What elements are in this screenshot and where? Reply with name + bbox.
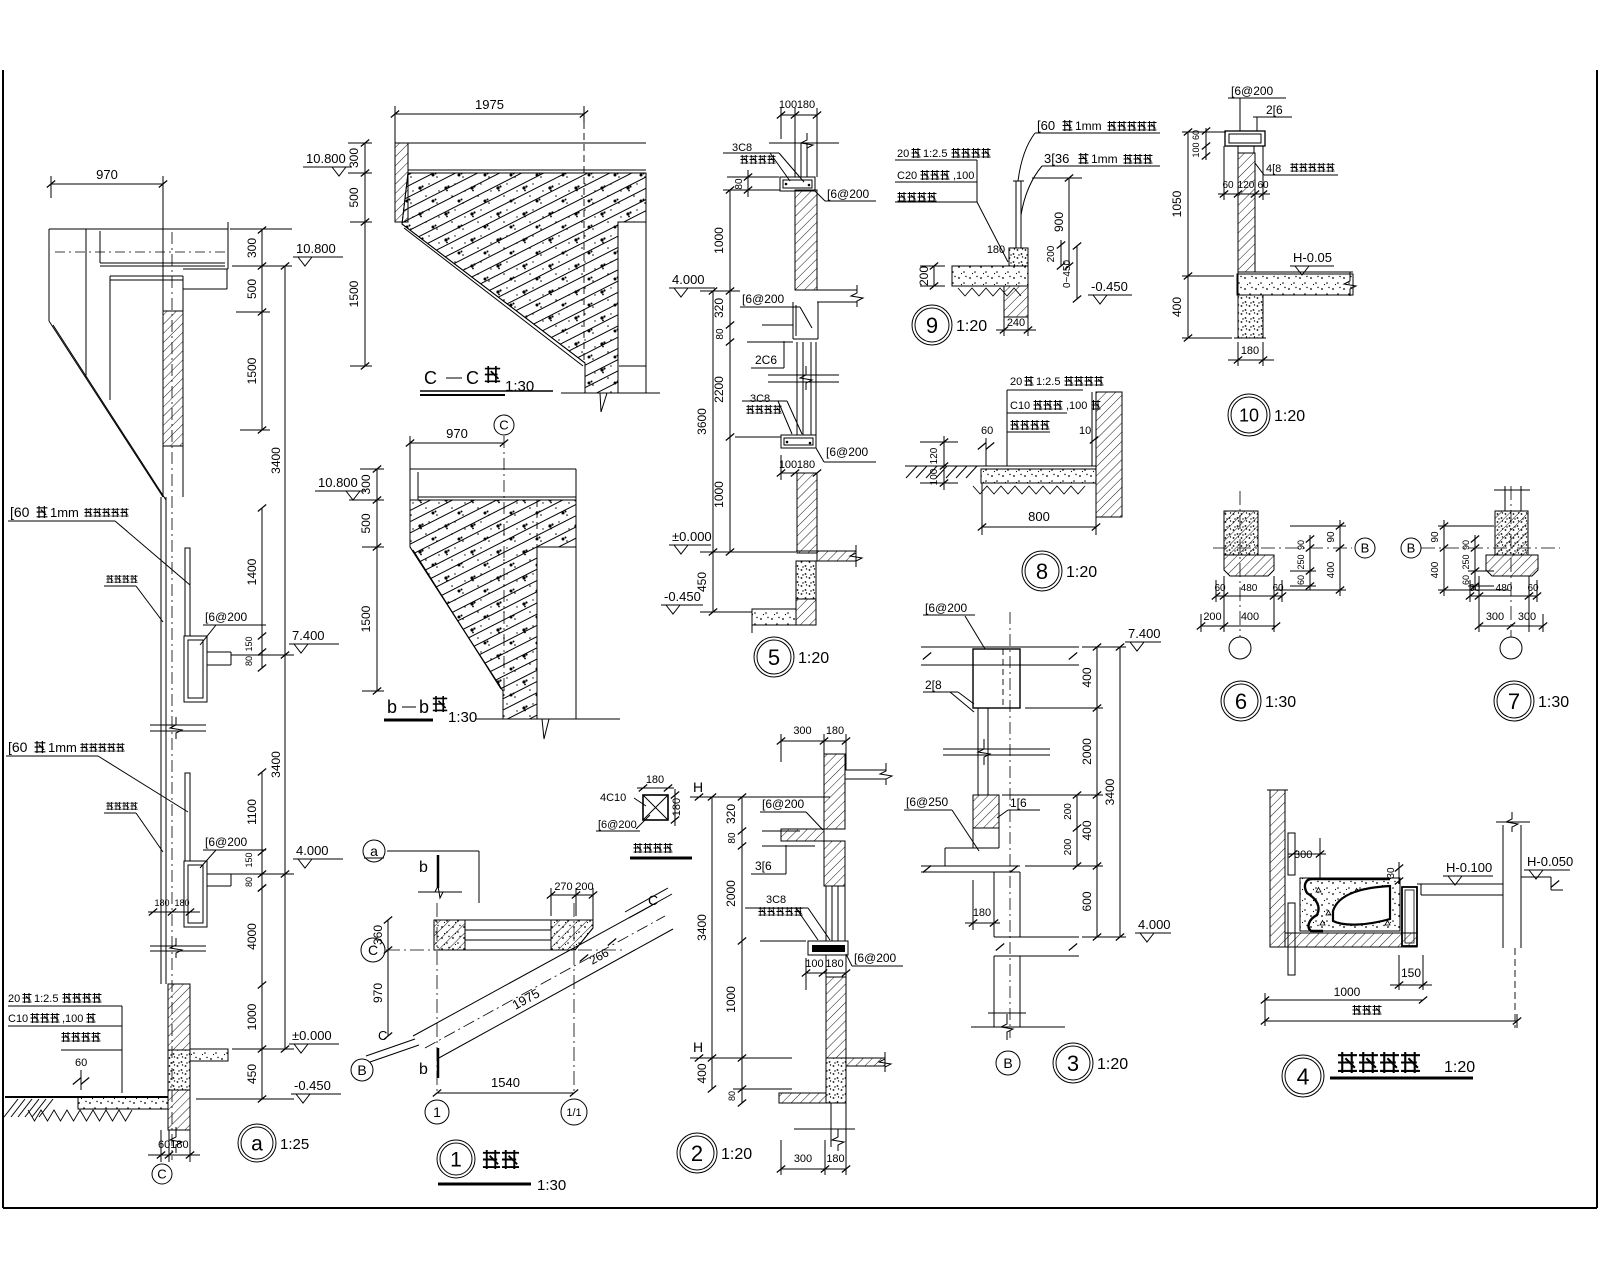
detail 6: axis bubble [1229,637,1251,659]
detail 2: top dim 300 180 [781,740,846,742]
svg-text:[60: [60 [8,739,28,755]
svg-text:1000: 1000 [724,986,738,1013]
svg-text:100: 100 [779,99,797,111]
detail 8: ground line [905,465,1096,467]
svg-text:±0.000: ±0.000 [292,1028,332,1043]
detail 5: wall below channel [796,342,798,435]
svg-text:1100: 1100 [245,799,259,825]
svg-text:[6@200: [6@200 [826,445,869,459]
plan: axis C circle [361,938,385,962]
section a: soil zigzag [28,1110,132,1121]
plan: wall band [434,919,593,921]
svg-text:H: H [693,779,703,795]
detail 3: dims right chain [1096,647,1098,937]
svg-text:C20: C20 [897,170,917,182]
section a: foundation wall [168,984,190,1050]
detail 2: title circle 2 [677,1133,717,1173]
column section: title [634,843,643,853]
detail 7: axis B circle [1401,538,1421,558]
svg-text:1:30: 1:30 [448,709,477,726]
svg-text:150: 150 [1401,966,1421,980]
svg-text:[6@200: [6@200 [598,819,637,831]
svg-text:150: 150 [244,852,254,867]
sheet border left [2,70,4,1208]
svg-text:2000: 2000 [724,880,738,907]
svg-text:-0.450: -0.450 [294,1078,331,1093]
detail 5: dim 80 left [727,176,779,178]
section a: railing post upper [185,548,190,636]
svg-text:250: 250 [1461,554,1471,569]
detail 7: dims left outer [1443,520,1445,596]
svg-text:3[36: 3[36 [1044,151,1069,166]
section b-b: left dim chain [376,469,378,691]
svg-text:1:2.5: 1:2.5 [923,148,947,160]
detail 2: extension lines [690,796,830,798]
svg-text:6: 6 [1235,689,1247,714]
svg-text:4[8: 4[8 [1266,163,1281,175]
svg-text:1:25: 1:25 [280,1136,309,1153]
svg-text:60: 60 [1296,575,1306,585]
section C-C: left dim chain [364,143,366,366]
detail 5: title circle 5 [754,637,794,677]
detail 5: slab at 4.000 [817,289,857,291]
svg-text:90: 90 [1461,540,1471,550]
detail 8: slab dotted [981,469,1096,483]
svg-text:80: 80 [244,656,254,666]
detail 5: dim 100 180 mid [781,472,817,474]
detail 10: coping cap [1225,131,1265,146]
svg-text:[6@200: [6@200 [742,292,785,306]
detail 6: dim 60 480 60 [1216,595,1282,597]
svg-text:10: 10 [1079,425,1091,437]
svg-text:10: 10 [1239,405,1259,425]
svg-text:1:2.5: 1:2.5 [34,993,58,1005]
svg-text:200: 200 [1046,245,1057,262]
column section: square with cross [643,795,668,820]
detail 7: footing [1486,555,1538,576]
detail 3: dims right inner small [1076,795,1078,866]
svg-text:200: 200 [1203,611,1221,623]
svg-text:80: 80 [715,328,726,340]
svg-text:600: 600 [1080,891,1094,911]
detail 5: outer dim chain [712,291,714,612]
svg-text:1000: 1000 [1334,985,1361,999]
svg-text:b: b [419,697,429,717]
section a: channel at 7.400 [184,636,207,702]
section a: outer dim chain [284,266,286,1049]
svg-text:240: 240 [1007,317,1025,329]
detail 2: ground line [794,1128,855,1130]
section a: extension lines [230,228,292,230]
detail 5: inner dim chain [729,190,731,552]
detail 7: top wall stubs [1504,486,1506,511]
svg-text:2[6: 2[6 [1266,103,1283,117]
svg-text:7.400: 7.400 [1128,626,1161,641]
svg-text:200: 200 [575,881,593,893]
section a: sloped soffit [49,321,163,497]
detail 5: beam 2 [781,435,816,448]
detail 5: wall lines above beam [794,143,796,177]
plan: dim 360 970 [387,920,389,1036]
detail 4: bottom slab hatched [1285,933,1417,947]
svg-text:1:2.5: 1:2.5 [1036,376,1060,388]
svg-text:400: 400 [695,1063,709,1083]
detail 5: foundation [796,561,816,599]
detail 5: top break [769,142,839,144]
svg-text:b: b [387,697,397,717]
svg-text:10.800: 10.800 [318,475,358,490]
svg-text:,100: ,100 [953,170,974,182]
svg-text:80: 80 [727,832,738,844]
svg-text:1mm: 1mm [1075,119,1102,133]
detail 10: wall below [1238,295,1263,338]
detail 8: title circle 8 [1022,551,1062,591]
detail 4: wall hatched [1270,790,1285,947]
svg-text:5: 5 [768,645,780,670]
svg-text:1:20: 1:20 [1274,408,1305,425]
section b-b: ground line [475,718,620,720]
section C-C: hidden lines [583,122,585,363]
section a: wall [162,269,164,311]
section b-b: soffit second line [413,550,501,689]
section a: ground slab left [78,1097,168,1109]
detail 2: wall hatched lower [826,977,846,1058]
svg-text:B: B [1407,541,1416,556]
svg-text:300: 300 [347,148,361,168]
svg-text:90: 90 [1296,540,1306,550]
detail 8: soil hatch left [906,466,917,478]
svg-text:-0.450: -0.450 [1091,279,1128,294]
section b-b: C axis circle top [494,415,514,435]
section b-b: dim 970 [410,442,504,444]
svg-text:1:20: 1:20 [798,650,829,667]
detail 4: rebar box [1402,887,1417,946]
section a: railing post lower [185,773,190,861]
detail 9: dim 200 left [933,266,935,286]
svg-text:270: 270 [554,881,572,893]
section a: channel at 4.000 [184,861,207,927]
svg-text:1975: 1975 [475,97,504,112]
svg-text:100: 100 [779,459,797,471]
svg-text:970: 970 [371,983,385,1003]
detail 10: wall hatched [1238,153,1255,272]
detail 3: ground [971,1026,1065,1028]
svg-text:60: 60 [75,1057,87,1069]
detail 4: dashed line below column [1514,948,1516,1028]
section b-b: hidden line [536,500,538,719]
detail 3: hatched block [973,795,999,828]
svg-text:400: 400 [1080,667,1094,687]
detail 6: column [1224,511,1258,555]
svg-text:20: 20 [8,993,20,1005]
detail 5: extension lines [723,189,780,191]
detail 2: inner dim chain [741,797,743,1103]
svg-text:150: 150 [244,636,254,651]
svg-text:C: C [157,1167,166,1182]
detail 3: centreline [1009,612,1011,1038]
detail 4: door strip lower [1288,903,1295,975]
section a: lower roof slab lines [110,275,183,277]
svg-text:3400: 3400 [695,914,709,941]
svg-text:180: 180 [797,459,815,471]
detail 7: centrelines [1421,547,1560,549]
section a: ground slab right [190,1049,228,1061]
svg-text:1mm: 1mm [1091,152,1118,166]
svg-text:970: 970 [446,426,468,441]
svg-text:180: 180 [987,244,1005,256]
svg-text:1:30: 1:30 [537,1177,566,1194]
detail 3: dim 3400 outer [1119,647,1121,937]
svg-text:60: 60 [981,425,993,437]
detail 2: bottom dim 300 180 [781,1168,846,1170]
svg-text:120: 120 [929,447,940,464]
svg-text:30: 30 [1386,867,1397,879]
svg-text:400: 400 [1170,297,1184,317]
svg-text:450: 450 [695,572,709,592]
detail 2: slab at bottom right [846,1057,885,1059]
detail 2: wall top hatched [824,754,845,829]
detail 4: title circle 4 [1282,1055,1324,1097]
detail 3: axis B circle [996,1051,1020,1075]
detail 9: title circle 9 [912,305,952,345]
svg-text:[6@200: [6@200 [925,601,968,615]
section C-C: soffit double line [404,228,583,366]
svg-text:2000: 2000 [1080,738,1094,765]
svg-text:1:20: 1:20 [1097,1056,1128,1073]
detail 3: beam mid [994,936,1079,938]
svg-text:970: 970 [96,167,118,182]
svg-text:[60: [60 [10,504,30,520]
svg-text:[6@200: [6@200 [205,610,248,624]
detail 7: dim 60 480 60 [1470,595,1537,597]
svg-text:[6@200: [6@200 [827,187,870,201]
detail 3: wall lower [993,956,995,1027]
section a: label glass wall lower [106,802,113,810]
svg-text:C: C [648,892,658,908]
svg-text:90: 90 [1326,531,1337,543]
svg-text:120: 120 [1238,180,1255,191]
svg-text:1:20: 1:20 [721,1146,752,1163]
svg-text:180: 180 [646,774,664,786]
detail 5: wall hatched lower [797,473,817,553]
svg-text:500: 500 [347,187,361,207]
svg-text:500: 500 [359,513,373,533]
detail 2: foundation dotted [826,1058,846,1103]
detail 4: floor line right [1417,883,1503,885]
svg-text:7: 7 [1508,689,1520,714]
detail 6: centrelines [1213,547,1352,549]
svg-text:1500: 1500 [347,280,361,307]
svg-text:360: 360 [371,925,385,945]
svg-text:3C8: 3C8 [766,894,786,906]
svg-text:180: 180 [1241,345,1259,357]
svg-text:200: 200 [1063,838,1074,855]
detail 3: extension lines right [1082,646,1126,648]
plan: axis circle 1/1 [561,1099,587,1125]
plan: ramp centreline [425,916,665,1048]
detail 4: right column [1502,825,1504,948]
svg-text:20: 20 [1010,376,1022,388]
svg-text:7.400: 7.400 [292,628,325,643]
svg-text:3C8: 3C8 [750,393,770,405]
svg-text:180: 180 [826,725,844,737]
detail 5: channel below 4.000 [792,302,794,339]
svg-text:4.000: 4.000 [1138,917,1171,932]
detail 7: column [1495,511,1528,555]
svg-text:3[6: 3[6 [755,859,772,873]
detail 6: dims right inner [1309,535,1311,590]
svg-text:1:30: 1:30 [1538,694,1569,711]
plan: break line top [418,891,462,893]
svg-text:C: C [424,368,437,388]
svg-text:1000: 1000 [245,1003,259,1030]
svg-text:H-0.100: H-0.100 [1446,860,1492,875]
svg-text:[60: [60 [1037,118,1055,133]
svg-text:800: 800 [1028,509,1050,524]
svg-text:10.800: 10.800 [296,241,336,256]
svg-text:20: 20 [897,148,909,160]
svg-text:1mm: 1mm [50,505,79,520]
detail 3: wall mid [993,872,995,937]
detail 9: curb [1009,248,1028,266]
svg-text:80: 80 [244,877,254,887]
section a: ground line [5,1096,168,1098]
svg-text:1000: 1000 [712,481,726,508]
svg-text:480: 480 [1241,583,1258,594]
detail 3: step ledge [972,828,974,848]
plan: section cut C upper [625,888,668,912]
detail 2: beam [808,941,848,955]
svg-text:250: 250 [1296,554,1306,569]
detail 2: wall below ledge hatched [824,841,845,886]
svg-text:4.000: 4.000 [296,843,329,858]
svg-text:180: 180 [826,1153,844,1165]
section a: break symbol low [150,945,206,947]
svg-text:180: 180 [797,99,815,111]
svg-text:450: 450 [245,1064,259,1084]
svg-text:80: 80 [727,1091,737,1101]
svg-text:180: 180 [154,898,169,908]
detail 4: pan area dots [1300,878,1400,931]
svg-text:320: 320 [712,298,726,318]
svg-text:a: a [251,1133,263,1156]
detail 4: squat pan [1305,879,1390,931]
detail 2: ledge [781,829,824,841]
detail 5: top dim 100 180 [781,114,817,116]
svg-text:3400: 3400 [269,447,283,474]
section b-b: break spike [542,719,549,739]
section a: roof centreline [55,251,225,253]
plan: section mark a [363,840,385,862]
svg-text:4C10: 4C10 [600,792,626,804]
detail 6: dim 200 400 [1201,625,1276,627]
svg-text:320: 320 [724,804,738,824]
detail 9: soil marks below slab [958,288,1021,296]
svg-text:H: H [693,1039,703,1055]
svg-text:200: 200 [917,266,931,286]
detail 7: axis bubble [1500,637,1522,659]
svg-text:90: 90 [1430,531,1441,543]
section a: centreline [171,232,173,1160]
svg-text:180: 180 [671,798,683,816]
section a: soil hatch left [4,1099,18,1117]
detail 2: outer dim chain [711,797,713,1089]
svg-text:1:20: 1:20 [1444,1059,1475,1076]
plan: axis circle 1 [425,1100,449,1124]
svg-text:C: C [466,368,479,388]
svg-text:2: 2 [691,1141,703,1166]
svg-text:C: C [378,1028,387,1043]
detail 4: door strip upper [1288,833,1295,875]
svg-text:1[6: 1[6 [1010,796,1027,810]
svg-text:1mm: 1mm [48,740,77,755]
section C-C: right wall [645,222,647,393]
section a: glass curtain wall lines [160,497,162,984]
section a: roof parapet outline [49,228,228,230]
plan: axis B circle [351,1059,373,1081]
section a: inner dim chain [261,230,263,430]
plan: ramp diagonals [413,903,656,1036]
detail 8: dim 800 [982,526,1096,528]
svg-text:480: 480 [1496,583,1513,594]
svg-text:180: 180 [825,958,843,970]
section b-b: top slab band [410,468,576,470]
svg-text:1400: 1400 [245,558,259,585]
svg-text:C10: C10 [8,1013,28,1025]
svg-text:500: 500 [245,279,259,299]
svg-text:8: 8 [1036,559,1048,584]
section C-C: dim 1975 [395,113,584,115]
section a: axis C circle [152,1164,172,1184]
svg-text:3: 3 [1067,1051,1079,1076]
svg-text:±0.000: ±0.000 [672,529,712,544]
detail 7: title circle 7 [1494,681,1534,721]
section a: bottom break [170,1127,182,1153]
detail 9: dim 900 [1068,178,1070,266]
detail 9: railing post [1015,181,1017,248]
detail 3: break [943,748,1050,750]
svg-text:300: 300 [793,725,811,737]
plan: axis 1 line [436,903,438,1093]
svg-text:2[8: 2[8 [925,678,942,692]
svg-text:[6@200: [6@200 [762,797,805,811]
svg-text:300: 300 [359,474,373,494]
detail 3: wall below box [977,708,979,795]
svg-text:C10: C10 [1010,400,1030,412]
svg-text:4.000: 4.000 [672,272,705,287]
sheet border right [1596,70,1598,1208]
svg-text:80: 80 [734,178,745,190]
detail 2: wall stub below beam [825,955,827,977]
plan: title 1 [437,1140,475,1178]
svg-text:3600: 3600 [695,408,709,435]
section a: title circle a 1:25 [238,1124,276,1162]
section a: wall hatched segment [163,311,183,446]
section C-C: top slab band [395,142,646,144]
detail 8: soil zigzag below [973,486,1085,494]
detail 7: dim 300 300 [1479,625,1543,627]
section C-C: left hatched strip [395,143,408,222]
svg-text:0~450: 0~450 [1062,260,1073,289]
svg-text:H-0.050: H-0.050 [1527,854,1573,869]
detail 6: title circle 6 [1221,681,1261,721]
detail 5: break mid [768,374,839,376]
detail 6: dims right outer [1339,520,1341,596]
svg-text:[6@200: [6@200 [854,951,897,965]
svg-text:b: b [419,1061,428,1078]
section b-b: centreline [503,436,505,700]
detail 6: axis B circle [1355,538,1375,558]
